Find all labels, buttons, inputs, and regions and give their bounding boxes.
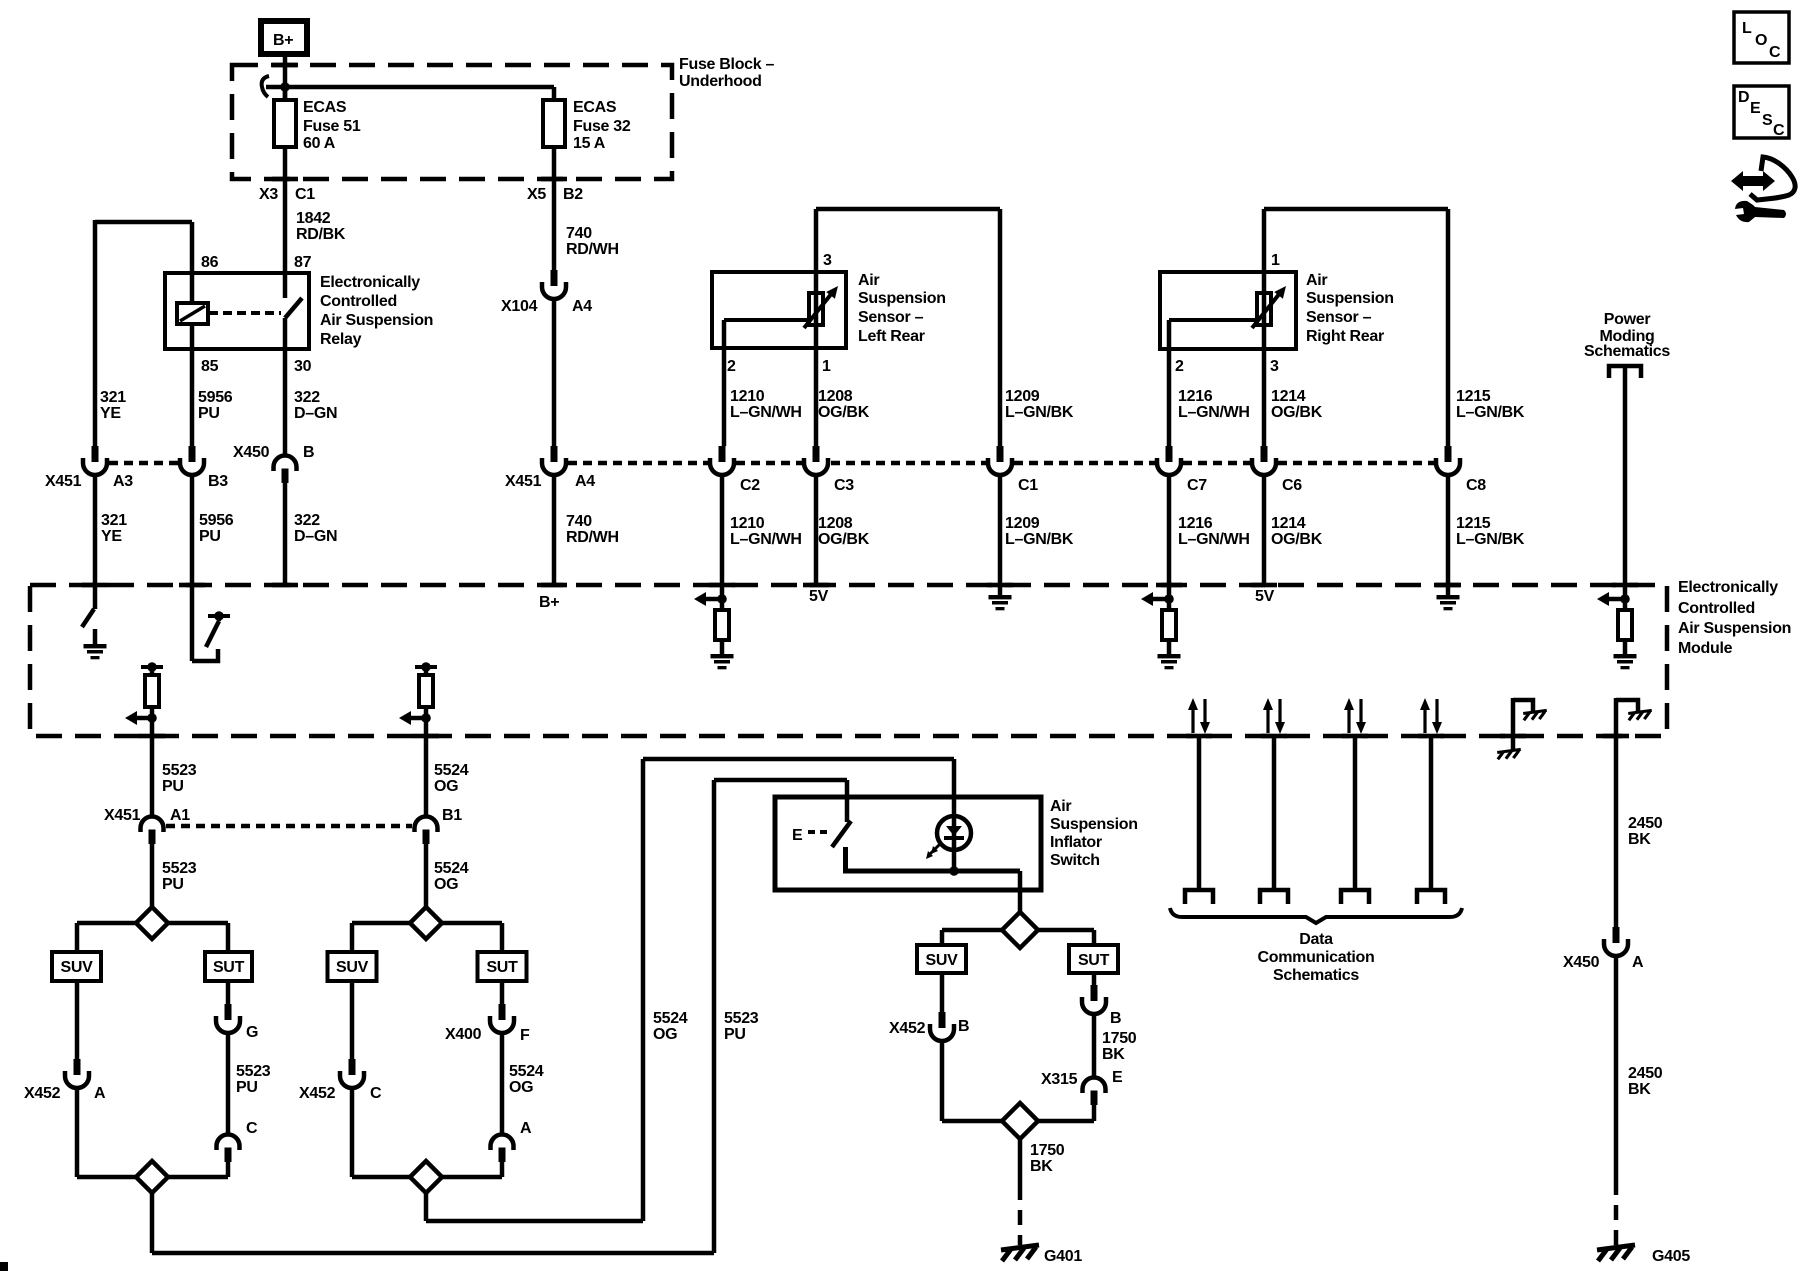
wire 5956 PU lower bbox=[190, 474, 195, 585]
wire splice to 5523 run bbox=[152, 1193, 714, 1253]
terminal data link 1 bbox=[1185, 890, 1213, 904]
label X451 A3 bbox=[45, 473, 133, 490]
wire sensor LR pin3 bbox=[816, 209, 1000, 446]
connector X451 B1 bbox=[415, 817, 438, 845]
label 1210 L-GN/WH bbox=[730, 388, 802, 421]
svg-text:5956: 5956 bbox=[199, 512, 234, 529]
svg-text:OG: OG bbox=[653, 1026, 677, 1043]
wire sensor RR pin3 bbox=[1262, 349, 1267, 446]
svg-text:PU: PU bbox=[162, 876, 184, 893]
label X451 A1 bbox=[104, 807, 190, 824]
splice bottom 1 bbox=[136, 1161, 168, 1193]
svg-text:86: 86 bbox=[201, 254, 219, 271]
label sensor right rear bbox=[1306, 272, 1394, 345]
label 2450 BK 2 bbox=[1628, 1065, 1663, 1098]
svg-text:L–GN/WH: L–GN/WH bbox=[1178, 404, 1250, 421]
svg-text:Communication: Communication bbox=[1258, 949, 1375, 966]
label X450 A bbox=[1563, 954, 1644, 971]
label relay name bbox=[320, 274, 433, 348]
wire F to A bbox=[500, 1032, 505, 1135]
label wire 740 RD/WH 2 bbox=[566, 513, 619, 546]
svg-text:2450: 2450 bbox=[1628, 815, 1663, 832]
wire splice1 right bbox=[168, 923, 228, 952]
svg-text:5524: 5524 bbox=[653, 1010, 688, 1027]
wire data link 3 bbox=[1353, 736, 1358, 890]
svg-text:X104: X104 bbox=[501, 298, 538, 315]
label B3 bbox=[208, 473, 228, 490]
svg-text:1215: 1215 bbox=[1456, 515, 1491, 532]
svg-text:1750: 1750 bbox=[1102, 1030, 1137, 1047]
svg-text:C: C bbox=[246, 1120, 258, 1137]
terminal data link 2 bbox=[1260, 890, 1288, 904]
svg-text:5524: 5524 bbox=[434, 860, 469, 877]
sensor box right rear bbox=[1160, 272, 1296, 349]
label 1215 L-GN/BK bbox=[1456, 388, 1525, 421]
ground G405 bbox=[1597, 1245, 1635, 1261]
svg-text:BK: BK bbox=[1628, 831, 1651, 848]
connector X400 F bbox=[490, 1004, 514, 1033]
svg-text:X450: X450 bbox=[1563, 954, 1600, 971]
label X400 F bbox=[445, 1026, 530, 1044]
svg-text:YE: YE bbox=[101, 528, 122, 545]
wire C down bbox=[226, 1162, 231, 1177]
label pin 1 LR bbox=[822, 358, 831, 375]
wire splice1 left bbox=[77, 923, 136, 952]
svg-text:Air: Air bbox=[1306, 272, 1327, 289]
connector G bbox=[216, 1004, 240, 1033]
label 5956 PU bbox=[198, 389, 233, 422]
data link 2 arrows bbox=[1263, 698, 1285, 734]
fuse F51 ECAS 60A bbox=[274, 87, 296, 273]
svg-text:OG: OG bbox=[434, 876, 458, 893]
svg-text:SUV: SUV bbox=[61, 959, 94, 976]
wire B1 to splice bbox=[424, 844, 429, 907]
label 1208 OG/BK bbox=[818, 388, 870, 421]
wire rail 2 bbox=[352, 1175, 502, 1180]
label X5 B2 bbox=[527, 186, 583, 203]
connector A bbox=[491, 1135, 514, 1163]
ground G401 bbox=[1001, 1245, 1039, 1261]
resistor power moding internal bbox=[1597, 585, 1637, 669]
label C3 bbox=[834, 477, 854, 494]
wire data link 4 bbox=[1429, 736, 1434, 890]
svg-text:B: B bbox=[303, 444, 314, 461]
svg-text:A: A bbox=[1632, 954, 1644, 971]
label 5524 OG run bbox=[653, 1010, 688, 1043]
svg-text:C6: C6 bbox=[1282, 477, 1302, 494]
wire sensor LR pin2 bbox=[722, 348, 727, 446]
svg-text:A1: A1 bbox=[170, 807, 190, 824]
svg-text:5V: 5V bbox=[809, 588, 829, 605]
svg-text:X452: X452 bbox=[299, 1085, 336, 1102]
connector C bbox=[217, 1135, 240, 1163]
label G405 bbox=[1652, 1248, 1690, 1265]
connector X315 E bbox=[1083, 1078, 1106, 1106]
wire 321 YE lower bbox=[93, 474, 98, 585]
svg-text:1209: 1209 bbox=[1005, 388, 1040, 405]
svg-text:Suspension: Suspension bbox=[858, 290, 946, 307]
label pin 2 RR bbox=[1175, 358, 1184, 375]
terminal data link 3 bbox=[1341, 890, 1369, 904]
corner mark bbox=[0, 1262, 8, 1271]
label X3 C1 bbox=[259, 186, 315, 203]
svg-text:SUV: SUV bbox=[336, 959, 369, 976]
resistor C2 internal bbox=[694, 585, 734, 669]
relay coil-contact link bbox=[209, 311, 281, 315]
svg-text:1842: 1842 bbox=[296, 210, 331, 227]
label sensor left rear bbox=[858, 272, 946, 345]
wire X452C down bbox=[350, 1087, 355, 1177]
brace data communication bbox=[1170, 908, 1462, 923]
case ground stub bbox=[1497, 698, 1547, 759]
svg-text:1208: 1208 bbox=[818, 515, 853, 532]
connector B bbox=[1082, 985, 1106, 1014]
wire C1 to module bbox=[998, 474, 1003, 585]
wire C2 to module bbox=[720, 474, 725, 585]
svg-text:Air: Air bbox=[858, 272, 879, 289]
svg-text:321: 321 bbox=[101, 512, 127, 529]
wire inflator left bbox=[942, 930, 1002, 945]
svg-text:SUT: SUT bbox=[1078, 952, 1110, 969]
connector C3 bbox=[804, 446, 828, 475]
svg-text:1: 1 bbox=[1271, 252, 1280, 269]
svg-text:Switch: Switch bbox=[1050, 852, 1100, 869]
wire 2450 BK lower bbox=[1614, 955, 1619, 1180]
svg-text:1215: 1215 bbox=[1456, 388, 1491, 405]
icon LOC box bbox=[1734, 12, 1789, 63]
wire X452B down bbox=[940, 1040, 945, 1121]
label wire 740 RD/WH bbox=[566, 225, 619, 258]
svg-text:B1: B1 bbox=[442, 807, 462, 824]
label pin 1 RR bbox=[1271, 252, 1280, 269]
label B1 bbox=[442, 807, 462, 824]
svg-text:C: C bbox=[1769, 44, 1781, 61]
label pin 2 LR bbox=[727, 358, 736, 375]
label X452 A bbox=[24, 1085, 106, 1102]
wire splice to 5524 run bbox=[426, 1193, 643, 1221]
splice inflator top bbox=[1002, 912, 1038, 948]
relay box bbox=[165, 273, 309, 349]
svg-text:C1: C1 bbox=[295, 186, 315, 203]
label 2450 BK bbox=[1628, 815, 1663, 848]
svg-text:ECAS: ECAS bbox=[573, 99, 617, 116]
svg-text:X451: X451 bbox=[45, 473, 82, 490]
svg-text:L: L bbox=[1742, 20, 1752, 37]
svg-text:740: 740 bbox=[566, 225, 592, 242]
svg-text:X452: X452 bbox=[24, 1085, 61, 1102]
box SUV 2 bbox=[328, 952, 377, 981]
svg-text:5956: 5956 bbox=[198, 389, 233, 406]
sensor LR potentiometer bbox=[724, 272, 838, 348]
label pin 30 bbox=[294, 358, 312, 375]
svg-text:X451: X451 bbox=[104, 807, 141, 824]
svg-text:1750: 1750 bbox=[1030, 1142, 1065, 1159]
label 5524 OG 3 bbox=[509, 1063, 544, 1096]
box SUV 3 bbox=[917, 945, 966, 973]
connector C6 bbox=[1252, 446, 1276, 475]
label 5956 PU 2 bbox=[199, 512, 234, 545]
label 5523 PU upper bbox=[162, 762, 197, 795]
wire SUT2 down bbox=[500, 981, 505, 1004]
wire B+ feed bbox=[283, 57, 288, 100]
svg-text:C: C bbox=[1773, 122, 1785, 139]
connector X452 C bbox=[340, 1059, 364, 1088]
svg-text:RD/WH: RD/WH bbox=[566, 241, 619, 258]
svg-text:C2: C2 bbox=[740, 477, 760, 494]
svg-text:PU: PU bbox=[198, 405, 220, 422]
svg-text:5523: 5523 bbox=[236, 1063, 271, 1080]
label 322 D-GN bbox=[294, 389, 337, 422]
label 1214 2 bbox=[1271, 515, 1323, 548]
fuse F32 ECAS 15A bbox=[543, 87, 565, 270]
svg-text:OG: OG bbox=[509, 1079, 533, 1096]
wire SUV1 down bbox=[75, 981, 80, 1059]
svg-text:Suspension: Suspension bbox=[1050, 816, 1138, 833]
svg-text:Power: Power bbox=[1604, 311, 1651, 328]
connector X104 A4 bbox=[542, 270, 566, 299]
svg-text:L–GN/WH: L–GN/WH bbox=[730, 404, 802, 421]
label 1209 L-GN/BK bbox=[1005, 388, 1074, 421]
wire 1750 dashed bbox=[1018, 1185, 1023, 1245]
label C2 bbox=[740, 477, 760, 494]
wire splice2 left bbox=[352, 923, 410, 952]
svg-text:X452: X452 bbox=[889, 1020, 926, 1037]
wire C6 to module bbox=[1262, 474, 1267, 585]
wire 5524 riser bbox=[643, 759, 954, 1221]
splice 5523 bbox=[136, 907, 168, 939]
svg-text:3: 3 bbox=[1270, 358, 1279, 375]
svg-text:Right Rear: Right Rear bbox=[1306, 328, 1384, 345]
data link 1 arrows bbox=[1188, 698, 1210, 734]
wire C7 to module bbox=[1167, 474, 1172, 585]
wire inflator right bbox=[1038, 930, 1094, 945]
label 1208 2 bbox=[818, 515, 870, 548]
wire rail 3 bbox=[942, 1119, 1094, 1124]
terminal power moding bbox=[1609, 366, 1641, 378]
wire 5523 to A1 bbox=[150, 736, 155, 816]
svg-text:G: G bbox=[246, 1024, 258, 1041]
inflator switch box bbox=[775, 797, 1041, 890]
svg-text:3: 3 bbox=[823, 252, 832, 269]
svg-text:Schematics: Schematics bbox=[1584, 343, 1670, 360]
label C1 bbox=[1018, 477, 1038, 494]
wire data link 1 bbox=[1197, 736, 1202, 890]
wire 85 to B3 bbox=[190, 349, 195, 446]
label C6 bbox=[1282, 477, 1302, 494]
label pin 86 bbox=[201, 254, 219, 271]
svg-text:Module: Module bbox=[1678, 640, 1733, 657]
label X452 B bbox=[889, 1018, 969, 1037]
label 1215 2 bbox=[1456, 515, 1525, 548]
connector X450 B bbox=[274, 456, 297, 484]
svg-text:A4: A4 bbox=[572, 298, 592, 315]
svg-text:5523: 5523 bbox=[162, 860, 197, 877]
svg-text:L–GN/WH: L–GN/WH bbox=[1178, 531, 1250, 548]
sensor RR potentiometer bbox=[1169, 272, 1286, 349]
svg-text:B2: B2 bbox=[563, 186, 583, 203]
svg-text:L–GN/WH: L–GN/WH bbox=[730, 531, 802, 548]
wire C8 to module bbox=[1446, 474, 1451, 585]
svg-text:321: 321 bbox=[100, 389, 126, 406]
relay coil bbox=[177, 273, 208, 349]
svg-text:X315: X315 bbox=[1041, 1071, 1078, 1088]
svg-text:BK: BK bbox=[1628, 1081, 1651, 1098]
svg-text:1210: 1210 bbox=[730, 388, 765, 405]
svg-text:5523: 5523 bbox=[162, 762, 197, 779]
svg-text:Schematics: Schematics bbox=[1273, 967, 1359, 984]
wire power moding bbox=[1623, 366, 1628, 585]
battery terminal B+ bbox=[261, 21, 307, 54]
data link 4 arrows bbox=[1420, 698, 1442, 734]
svg-text:Air Suspension: Air Suspension bbox=[1678, 620, 1791, 637]
svg-text:5523: 5523 bbox=[724, 1010, 759, 1027]
terminal data link 4 bbox=[1417, 890, 1445, 904]
svg-text:Air: Air bbox=[1050, 798, 1071, 815]
svg-text:X400: X400 bbox=[445, 1026, 482, 1043]
svg-text:A3: A3 bbox=[113, 473, 133, 490]
svg-text:X3: X3 bbox=[259, 186, 278, 203]
svg-text:G401: G401 bbox=[1044, 1248, 1082, 1265]
connector link A1-B1 bbox=[166, 824, 412, 829]
label 5523 PU 3 bbox=[236, 1063, 271, 1096]
label C8 bbox=[1466, 477, 1486, 494]
label 1750 BK 2 bbox=[1030, 1142, 1065, 1175]
svg-text:BK: BK bbox=[1102, 1046, 1125, 1063]
label 5524 OG lower bbox=[434, 860, 469, 893]
wire 2450 dashed bbox=[1614, 1180, 1619, 1245]
svg-text:1208: 1208 bbox=[818, 388, 853, 405]
svg-text:S: S bbox=[1762, 112, 1773, 129]
svg-text:OG/BK: OG/BK bbox=[1271, 404, 1323, 421]
svg-text:A: A bbox=[520, 1120, 532, 1137]
svg-text:G405: G405 bbox=[1652, 1248, 1690, 1265]
wire rail 1 bbox=[77, 1175, 228, 1180]
svg-text:BK: BK bbox=[1030, 1158, 1053, 1175]
svg-text:60 A: 60 A bbox=[303, 135, 336, 152]
svg-text:Sensor –: Sensor – bbox=[858, 309, 924, 326]
wire 1750 BK bbox=[1018, 1139, 1023, 1185]
wire 740 RD/WH lower bbox=[552, 298, 557, 446]
svg-text:O: O bbox=[1755, 32, 1767, 49]
svg-text:L–GN/BK: L–GN/BK bbox=[1456, 531, 1525, 548]
wire SUT1 down bbox=[226, 981, 231, 1004]
wire SUV3 down bbox=[940, 973, 945, 1012]
label X450 B bbox=[233, 444, 314, 461]
splice bottom 3 bbox=[1002, 1103, 1038, 1139]
label 1209 2 bbox=[1005, 515, 1074, 548]
wire C3 to module bbox=[814, 474, 819, 585]
wire 322 D-GN lower bbox=[283, 483, 288, 585]
data link 3 arrows bbox=[1344, 698, 1366, 734]
connector X452 B bbox=[930, 1012, 954, 1041]
svg-text:C1: C1 bbox=[1018, 477, 1038, 494]
indicator LED bbox=[926, 759, 971, 876]
label X452 C bbox=[299, 1085, 382, 1102]
connector C7 bbox=[1157, 446, 1181, 475]
label wire 1842 RD/BK bbox=[296, 210, 346, 243]
svg-text:PU: PU bbox=[724, 1026, 746, 1043]
wire SUT3 down bbox=[1092, 973, 1097, 985]
wire splice2 right bbox=[442, 923, 502, 952]
svg-text:2: 2 bbox=[1175, 358, 1184, 375]
label Data Communication Schematics bbox=[1258, 931, 1375, 984]
svg-text:B+: B+ bbox=[539, 594, 559, 611]
driver output 5523 bbox=[125, 662, 163, 736]
label X451 A4 2 bbox=[505, 473, 595, 490]
svg-text:B: B bbox=[1110, 1010, 1121, 1027]
svg-text:OG/BK: OG/BK bbox=[818, 404, 870, 421]
connector C8 bbox=[1436, 446, 1460, 475]
wire B to E bbox=[1092, 1013, 1097, 1077]
connector link row bbox=[568, 461, 1434, 466]
splice 5524 bbox=[410, 907, 442, 939]
svg-text:Electronically: Electronically bbox=[1678, 579, 1778, 596]
box SUT 1 bbox=[205, 952, 252, 981]
svg-text:PU: PU bbox=[236, 1079, 258, 1096]
label module name bbox=[1678, 579, 1791, 657]
svg-text:Electronically: Electronically bbox=[320, 274, 420, 291]
wire SUV2 down bbox=[350, 981, 355, 1059]
svg-text:D–GN: D–GN bbox=[294, 528, 337, 545]
connector C1 bbox=[988, 446, 1012, 475]
switch 321 input to ground bbox=[82, 585, 107, 659]
driver output 5524 bbox=[399, 662, 437, 736]
label 5V right bbox=[1255, 588, 1275, 605]
label G401 bbox=[1044, 1248, 1082, 1265]
label C7 bbox=[1187, 477, 1207, 494]
label 5524 OG upper bbox=[434, 762, 469, 795]
label 321 YE 2 bbox=[101, 512, 127, 545]
svg-text:Fuse Block –: Fuse Block – bbox=[679, 56, 775, 73]
label 322 D-GN 2 bbox=[294, 512, 337, 545]
wire sensor RR pin1 bbox=[1264, 209, 1448, 446]
label 5V left bbox=[809, 588, 829, 605]
connector X450 A bbox=[1604, 927, 1628, 956]
svg-text:740: 740 bbox=[566, 513, 592, 530]
label pin 3 LR bbox=[823, 252, 832, 269]
label pin 3 RR bbox=[1270, 358, 1279, 375]
label 321 YE bbox=[100, 389, 126, 422]
wire fuse block bus bbox=[262, 76, 554, 97]
svg-text:F: F bbox=[520, 1027, 530, 1044]
svg-text:1210: 1210 bbox=[730, 515, 765, 532]
svg-text:1214: 1214 bbox=[1271, 515, 1306, 532]
svg-text:X451: X451 bbox=[505, 473, 542, 490]
svg-text:OG: OG bbox=[434, 778, 458, 795]
box SUV 1 bbox=[52, 952, 101, 981]
inflator switch contact bbox=[792, 780, 1020, 912]
sensor box left rear bbox=[712, 272, 846, 348]
svg-text:RD/WH: RD/WH bbox=[566, 529, 619, 546]
svg-text:SUT: SUT bbox=[486, 959, 518, 976]
svg-text:Controlled: Controlled bbox=[1678, 600, 1755, 617]
wire G to C bbox=[226, 1032, 231, 1135]
connector link A3-B3 bbox=[109, 461, 179, 466]
wire A1 to splice bbox=[150, 844, 155, 907]
connector X451 B3 bbox=[180, 446, 204, 475]
svg-text:SUT: SUT bbox=[213, 959, 245, 976]
label ECAS Fuse 51 60 A bbox=[303, 99, 361, 152]
svg-text:C: C bbox=[370, 1085, 382, 1102]
svg-text:87: 87 bbox=[294, 254, 312, 271]
svg-text:SUV: SUV bbox=[926, 952, 959, 969]
svg-text:5V: 5V bbox=[1255, 588, 1275, 605]
wire sensor RR pin2 bbox=[1167, 349, 1172, 446]
switch 5956 input bbox=[192, 585, 230, 661]
svg-text:85: 85 bbox=[201, 358, 219, 375]
connector X451 A3 bbox=[83, 446, 107, 475]
svg-text:1: 1 bbox=[822, 358, 831, 375]
